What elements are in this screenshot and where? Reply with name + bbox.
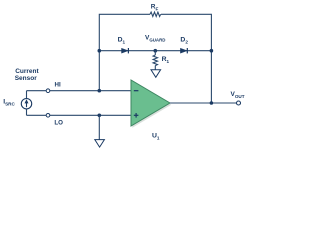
svg-text:R1: R1 xyxy=(162,56,170,64)
op-amp plus input symbol xyxy=(134,114,139,116)
terminal VOUT xyxy=(237,101,241,105)
junction left vertical / diode row xyxy=(98,49,102,53)
op-amp minus input symbol xyxy=(134,90,139,92)
svg-text:D1: D1 xyxy=(118,37,126,45)
diode D2 xyxy=(180,37,188,54)
wire op-amp output xyxy=(170,102,237,104)
terminal HI xyxy=(46,89,50,93)
svg-text:U1: U1 xyxy=(152,132,160,140)
resistor RF xyxy=(150,12,161,16)
junction node HI / left vertical xyxy=(98,89,102,93)
wire top feedback loop left segment xyxy=(99,14,150,90)
svg-text:HI: HI xyxy=(55,81,61,88)
terminal LO xyxy=(46,114,50,118)
op-amp U1 xyxy=(131,80,170,126)
op-amp U1 shadow xyxy=(132,82,171,128)
current source ISRC xyxy=(3,98,31,109)
svg-text:RF: RF xyxy=(151,3,159,11)
wire ground drop from LO xyxy=(98,115,100,139)
ground under R1 xyxy=(151,70,161,78)
svg-text:ISRC: ISRC xyxy=(3,98,15,106)
wire HI line xyxy=(27,90,132,92)
svg-text:Sensor: Sensor xyxy=(15,75,38,82)
node VGUARD xyxy=(154,49,158,53)
wire top feedback loop right segment xyxy=(161,14,211,103)
svg-text:D2: D2 xyxy=(180,37,188,45)
wire diode row xyxy=(99,50,211,52)
junction node LO / ground drop xyxy=(98,114,102,118)
current source ISRC wires xyxy=(26,91,28,99)
svg-text:LO: LO xyxy=(54,119,63,126)
resistor R1 xyxy=(153,51,169,70)
svg-text:VGUARD: VGUARD xyxy=(145,35,165,43)
ground under LO line xyxy=(95,140,105,148)
diode D1 xyxy=(118,37,129,54)
svg-text:VOUT: VOUT xyxy=(231,91,245,99)
junction right vertical / diode row xyxy=(210,49,214,53)
svg-text:Current: Current xyxy=(15,68,39,75)
wire LO line xyxy=(27,114,132,116)
junction node output / right vertical xyxy=(210,101,214,105)
